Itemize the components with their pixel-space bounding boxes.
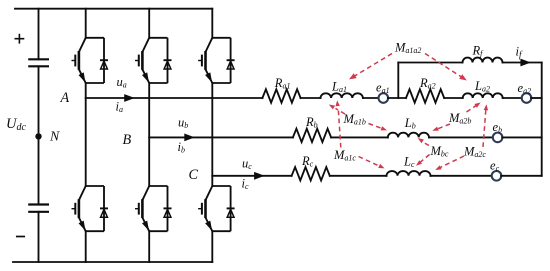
arrow Ma1b to Lb xyxy=(369,124,384,129)
wire: ec to right bus xyxy=(501,175,542,177)
arrowhead Mbc to Lc xyxy=(416,160,422,166)
wire: La2 to ea2 xyxy=(503,97,522,99)
arrow Ma1a2 to La1 xyxy=(352,54,392,78)
inductor Lc xyxy=(387,171,431,176)
svg-text:ub: ub xyxy=(178,116,188,131)
current arrow ia xyxy=(124,94,135,102)
wire: Rf branch left vertical xyxy=(397,63,399,99)
svg-text:La1: La1 xyxy=(331,80,347,95)
wire: capacitor branch middle xyxy=(38,66,40,204)
svg-text:ua: ua xyxy=(117,75,127,90)
arrow Ma1c to La1 xyxy=(338,111,340,148)
svg-text:Udc: Udc xyxy=(6,116,26,133)
svg-text:Rc: Rc xyxy=(301,154,314,169)
arrow Ma1b to La1 xyxy=(336,108,346,114)
transistor VT5 (upper leg C IGBT + diode) xyxy=(198,38,235,83)
arrowhead Ma1c to Lc xyxy=(378,164,384,169)
wire: leg 2 middle (phase B node) xyxy=(148,83,150,186)
svg-text:ea1: ea1 xyxy=(376,81,390,96)
svg-text:Rf: Rf xyxy=(472,44,485,59)
wire: leg 2 upper stub xyxy=(148,9,150,38)
transistor VT1 (upper leg A IGBT + diode) xyxy=(72,38,109,83)
wire: leg 2 lower stub xyxy=(148,231,150,262)
wire: eb to right bus xyxy=(502,136,542,138)
current arrow if xyxy=(520,59,531,67)
wire: ea1 to Ra2 with junction xyxy=(388,97,406,99)
wire: bottom DC rail xyxy=(13,261,212,263)
svg-text:Rb: Rb xyxy=(305,115,318,130)
wire: leg 1 lower stub xyxy=(85,231,87,262)
wire: Rb to Lb xyxy=(331,136,388,138)
current arrow ic xyxy=(254,172,265,180)
resistor Ra1 xyxy=(262,89,300,102)
arrow Ma2c to Lc xyxy=(440,156,464,168)
wire: Rf to right bus xyxy=(503,62,542,64)
wire: capacitor branch lower xyxy=(38,212,40,262)
svg-text:Ma1a2: Ma1a2 xyxy=(394,41,421,56)
wire: ea2 to right bus xyxy=(531,97,542,99)
arrow Ma1c to Lc xyxy=(359,157,381,167)
EMF source ea2 xyxy=(522,93,532,103)
arrowhead Ma2b to La2 xyxy=(474,103,480,108)
wire: right bus vertical xyxy=(541,63,543,176)
transistor VT4 (lower leg A IGBT + diode) xyxy=(72,186,109,231)
svg-text:Lc: Lc xyxy=(403,155,415,170)
wire: Rc to Lc xyxy=(330,175,387,177)
mutual inductance arrows (red dashed) xyxy=(336,54,487,168)
inductor La2 xyxy=(463,93,503,98)
EMF source ea1 xyxy=(379,93,389,103)
label - (minus sign) xyxy=(17,236,24,238)
capacitor C1 xyxy=(29,58,48,60)
svg-text:Mbc: Mbc xyxy=(430,144,449,159)
svg-text:uc: uc xyxy=(242,157,252,172)
inductor La1 xyxy=(321,93,363,98)
resistor Rc xyxy=(292,167,330,180)
wire: leg 3 middle (phase C node) xyxy=(211,83,213,186)
svg-text:Ra1: Ra1 xyxy=(274,76,291,91)
wire: leg 1 middle (phase A node) xyxy=(85,83,87,186)
wire: capacitor branch upper xyxy=(38,9,40,60)
arrowhead Ma1c to La1 xyxy=(336,100,340,106)
arrowhead Mbc to Lb xyxy=(418,138,424,143)
wire: Lb to eb xyxy=(429,136,493,138)
svg-text:C: C xyxy=(189,167,199,183)
wire: La1 to ea1 xyxy=(363,97,379,99)
svg-text:ib: ib xyxy=(178,140,185,155)
wire: leg 3 lower stub xyxy=(211,231,213,262)
arrowhead Ma1b to Lb xyxy=(381,126,387,130)
wire: Ra2 to La2 xyxy=(444,97,463,99)
capacitor C2 xyxy=(29,203,48,205)
arrow Ma2c to La2 xyxy=(483,108,486,148)
node N xyxy=(35,133,41,139)
svg-text:Ma2b: Ma2b xyxy=(448,111,471,126)
resistor Ra2 xyxy=(406,89,444,102)
svg-text:Lb: Lb xyxy=(404,116,416,131)
arrowhead Ma2c to Lc xyxy=(435,165,441,170)
transistor VT6 (lower leg B IGBT + diode) xyxy=(135,186,172,231)
transistor VT3 (upper leg B IGBT + diode) xyxy=(135,38,172,83)
EMF source eb xyxy=(493,133,503,143)
resistor Rb xyxy=(293,129,331,142)
wire: Rf branch top left xyxy=(398,62,462,64)
svg-text:Ma1c: Ma1c xyxy=(333,148,356,163)
arrow Mbc to Lb xyxy=(421,141,429,145)
wire: leg 1 upper stub xyxy=(85,9,87,38)
EMF source ec xyxy=(492,171,502,181)
arrow Ma2b to Lb xyxy=(437,124,451,129)
wire: phase C line xyxy=(212,175,291,177)
svg-text:ic: ic xyxy=(242,177,249,192)
svg-text:if: if xyxy=(516,45,523,60)
arrowhead Ma1a2 to La2 xyxy=(459,74,467,80)
wire: top DC rail xyxy=(15,8,212,10)
wire: Ra1 to La1 xyxy=(301,97,321,99)
wire: phase A line xyxy=(86,97,263,99)
wire: phase B line xyxy=(149,136,293,138)
svg-text:ec: ec xyxy=(490,159,500,174)
arrowhead Ma1b to La1 xyxy=(329,105,335,110)
svg-text:N: N xyxy=(49,128,60,143)
current arrow ib xyxy=(184,134,195,142)
svg-text:A: A xyxy=(60,90,70,106)
arrowhead Ma2c to La2 xyxy=(484,104,488,110)
arrow Ma1a2 to La2 xyxy=(425,54,464,79)
svg-text:ia: ia xyxy=(116,100,123,115)
arrow Mbc to Lc xyxy=(420,155,430,163)
svg-text:Ma1b: Ma1b xyxy=(343,112,366,127)
svg-text:B: B xyxy=(123,132,132,148)
arrowhead Ma2b to Lb xyxy=(432,127,438,131)
svg-text:eb: eb xyxy=(493,120,503,135)
svg-text:La2: La2 xyxy=(474,79,490,94)
wire: Lc to ec xyxy=(431,175,492,177)
svg-text:ea2: ea2 xyxy=(518,81,532,96)
arrowhead Ma1a2 to La1 xyxy=(349,73,357,79)
arrow Ma2b to La2 xyxy=(467,104,479,112)
label + (plus sign) xyxy=(15,35,23,43)
transistor VT2 (lower leg C IGBT + diode) xyxy=(198,186,235,231)
wire: leg 3 upper stub xyxy=(211,9,213,38)
svg-text:Ra2: Ra2 xyxy=(419,76,436,91)
resistor Rf xyxy=(463,58,503,63)
inductor Lb xyxy=(388,133,429,138)
